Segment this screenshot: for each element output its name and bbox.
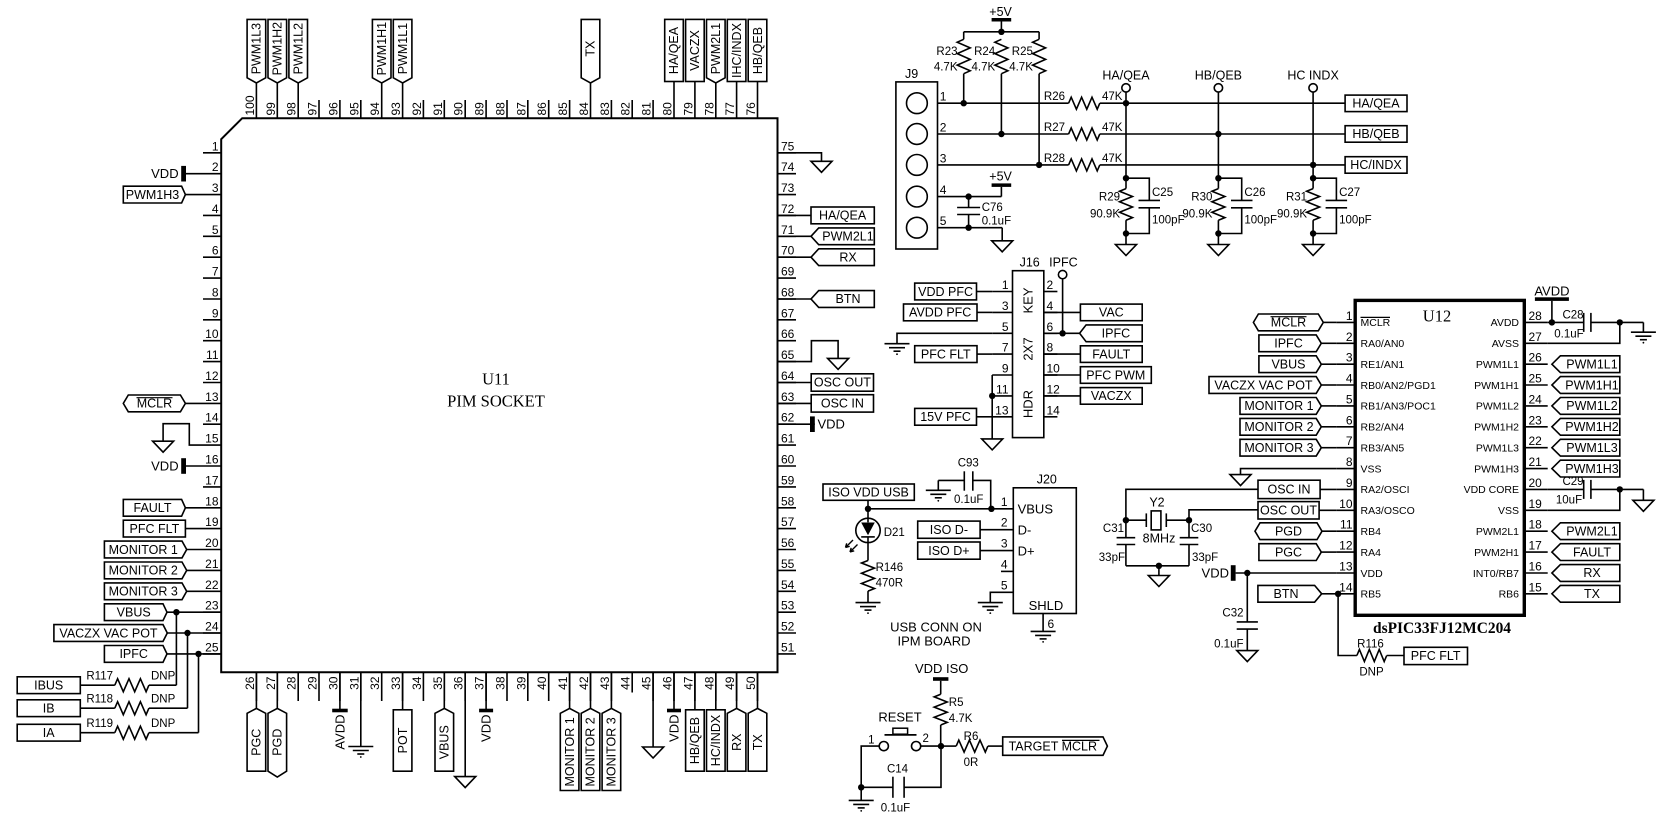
svg-text:HA/QEA: HA/QEA [819,209,867,223]
svg-text:20: 20 [205,536,219,550]
svg-text:8: 8 [1346,455,1353,469]
svg-text:5: 5 [1346,392,1353,406]
net flag PWM1L2 (U12-24) [1552,398,1620,415]
wire R23 to pin1 row [963,74,965,104]
svg-text:VDD: VDD [151,166,178,181]
svg-text:PWM1L3: PWM1L3 [1476,443,1519,455]
svg-text:29: 29 [306,676,320,690]
wire IA to resistor [80,732,115,734]
svg-text:2: 2 [1346,330,1353,344]
svg-text:90: 90 [452,102,466,116]
J20 pin 5 wire [990,578,1013,602]
J16 pin 8 stub [1044,341,1058,355]
capacitor C28 [1554,310,1591,341]
svg-text:RA3/OSCO: RA3/OSCO [1361,505,1415,517]
net flag VACZX VAC POT (U12-4) [1209,377,1336,394]
svg-text:0.1uF: 0.1uF [1554,329,1583,341]
net label OSC IN (U12-9) [1258,480,1336,498]
wire pin45 to ground [652,672,654,747]
U11 pin 27 [264,672,278,701]
wire pin37 to VDD [485,672,487,709]
U11 pin 70 [778,244,797,258]
wire pin50 to flag [757,672,759,708]
net flag MONITOR 1 (U11-20) [104,541,186,558]
U12 pin 22 (PWM1L3) [1476,434,1548,454]
svg-text:44: 44 [619,676,633,690]
svg-text:R26: R26 [1044,91,1065,103]
U12 pin 14 (RB5) [1336,580,1381,600]
svg-text:72: 72 [781,202,795,216]
wire to R30 [1217,178,1219,188]
U11 pin 81 [640,100,654,118]
ground (Y2) [1148,576,1169,587]
U11 pin 73 [778,181,797,195]
svg-text:DNP: DNP [1359,667,1384,679]
svg-text:12: 12 [205,369,219,383]
wire pin42 to flag [590,672,592,708]
wire J9-2 to R27 [938,133,1069,135]
wire pin98 to flag [297,83,299,100]
wire R31 to gnd node [1312,220,1314,233]
svg-text:97: 97 [306,102,320,116]
svg-text:MONITOR 3: MONITOR 3 [1244,441,1313,455]
svg-text:19: 19 [205,515,219,529]
U11 pin 16 [203,453,221,467]
net label FAULT (J16-8) [1080,346,1142,363]
junction Y2 left [1123,517,1129,523]
svg-text:+5V: +5V [989,5,1012,19]
svg-text:VACZX VAC POT: VACZX VAC POT [59,626,158,640]
J9 pin 1 number [940,90,947,104]
net label VAC [1080,304,1142,321]
wire J16-10 to PFC PWM [1044,374,1081,376]
svg-text:71: 71 [781,223,795,237]
U11 pin 78 [702,100,716,118]
svg-text:R5: R5 [949,697,964,709]
resistor R29 [1090,189,1133,221]
wire R31 gnd stem [1312,234,1314,245]
wire pin76 to label [757,82,759,101]
wire J16-9 down to ground [991,375,993,439]
svg-text:90.9K: 90.9K [1277,209,1307,221]
svg-text:RX: RX [1583,566,1601,580]
svg-text:16: 16 [205,453,219,467]
svg-text:PWM1L2: PWM1L2 [291,23,305,74]
wire IBUS to resistor [80,684,115,686]
svg-text:9: 9 [212,306,219,320]
net label 15V PFC [915,408,977,425]
svg-text:BTN: BTN [836,292,861,306]
capacitor C30 [1180,520,1219,566]
U11 pin 53 [778,599,797,613]
svg-text:FAULT: FAULT [1092,347,1130,361]
wire PFC FLT [977,353,992,355]
svg-text:10: 10 [205,327,219,341]
svg-text:AVSS: AVSS [1492,338,1519,350]
U11 pin 49 [723,672,737,701]
junction crystal gnd [1156,563,1162,569]
U11 pin 91 [431,100,445,118]
U11 pin 57 [778,515,797,529]
resistor R25 [1009,39,1045,73]
net flag PWM2L1 (U12-18) [1552,523,1620,540]
net flag PWM1H2 (U11-99) [268,19,287,83]
U11 pin 43 [598,672,612,701]
net flag PGD (U12-11) [1255,523,1336,540]
svg-text:10: 10 [1047,362,1061,376]
ground earth (J20-6) [1031,631,1056,642]
net label ISO D+ [918,542,980,559]
svg-text:61: 61 [781,432,795,446]
svg-text:R29: R29 [1099,192,1120,204]
U11 pin 50 [744,672,758,701]
svg-text:90.9K: 90.9K [1182,209,1212,221]
ground (pin 45) [643,747,664,758]
U12 pin 7 (RB3/AN5) [1336,434,1404,454]
svg-text:15V PFC: 15V PFC [920,410,971,424]
junction pin25 [195,651,201,657]
junction R24/pin2 [998,131,1004,137]
U12 pin 1 (MCLR) [1336,309,1390,329]
wire R30 to gnd node [1217,220,1219,233]
svg-text:41: 41 [556,676,570,690]
net flag RX (U12-16) [1552,565,1620,582]
svg-text:94: 94 [368,102,382,116]
wire pin62 to VDD [778,423,815,425]
J16 pin 10 stub [1044,362,1060,376]
U11 pin 44 [619,672,633,692]
wire pin30 to AVDD [339,672,341,709]
svg-text:TX: TX [751,734,765,751]
svg-text:R30: R30 [1191,192,1212,204]
net flag MONITOR 1 (U11-41) [560,708,579,790]
wire pin2 to VDD [186,173,203,175]
svg-text:R6: R6 [964,731,979,743]
J20 pin 3 stub [980,537,1013,551]
svg-text:VDD CORE: VDD CORE [1464,484,1519,496]
svg-text:96: 96 [326,102,340,116]
U11 pin 72 [778,202,797,216]
capacitor C31 [1099,520,1135,566]
connector J20 body [1013,472,1076,613]
svg-text:RB2/AN4: RB2/AN4 [1361,422,1405,434]
svg-text:IPFC: IPFC [1274,337,1302,351]
U12 pin 28 (AVDD) [1491,309,1548,329]
resistor R117 [86,671,149,692]
J9 pin 1 circle [907,93,928,114]
svg-text:73: 73 [781,181,795,195]
wire C14 left gnd stem [860,787,862,800]
junction R30 top [1215,175,1221,181]
U11 pin 2 [203,160,221,174]
wire pin84 to flag [590,83,592,100]
ground earth (J16-5) [885,344,910,355]
ground earth (C93) [926,490,951,501]
svg-text:+5V: +5V [989,170,1012,184]
net flag MONITOR 2 (U11-21) [104,562,186,579]
wire VDD to U12-13 [1236,572,1337,574]
svg-text:23: 23 [1529,413,1543,427]
U12 pin 18 (PWM2L1) [1476,518,1548,538]
U12 pin 11 (RB4) [1336,518,1381,538]
wire pin100 to flag [255,83,257,100]
svg-text:PFC FLT: PFC FLT [1411,649,1461,663]
junction C29/VSS [1617,486,1623,492]
svg-text:6: 6 [212,244,219,258]
resistor R30 [1182,189,1225,221]
svg-text:IPFC: IPFC [119,647,147,661]
svg-text:37: 37 [473,676,487,690]
svg-text:RB0/AN2/PGD1: RB0/AN2/PGD1 [1361,380,1436,392]
svg-text:54: 54 [781,578,795,592]
net label ISO VDD USB [823,484,914,500]
svg-text:69: 69 [781,265,795,279]
svg-text:AVDD: AVDD [1534,283,1569,298]
ground (J16-9) [982,439,1003,450]
U11 pin 28 [285,672,299,701]
U12 pin 26 (PWM1L1) [1476,351,1548,371]
svg-text:PWM1H2: PWM1H2 [1565,420,1619,434]
net label VACZX (U11-79) [686,19,705,81]
wire R30 gnd stem [1217,234,1219,245]
junction R31 top [1310,175,1316,181]
svg-text:VBUS: VBUS [438,725,452,759]
svg-text:R31: R31 [1286,192,1307,204]
U11 pin 88 [494,100,508,118]
U11 pin 12 [203,369,221,383]
wire pin13 to flag [185,402,203,404]
svg-text:100pF: 100pF [1152,215,1185,227]
svg-text:J9: J9 [905,67,918,81]
U12 pin 19 (VSS) [1498,497,1548,517]
svg-text:88: 88 [494,102,508,116]
U12 pin 23 (PWM1H2) [1474,413,1548,433]
svg-text:34: 34 [410,676,424,690]
U11 pin 63 [778,390,797,404]
svg-text:2: 2 [923,733,929,745]
U11 pin 10 [203,327,221,341]
wire R116 to PFC FLT [1387,655,1404,657]
U11 pin 1 [203,139,221,153]
power VDD (pin 16) [151,458,186,474]
ground earth (RESET) [849,800,874,811]
svg-text:79: 79 [681,102,695,116]
svg-text:VDD: VDD [1361,568,1384,580]
svg-text:HB/QEB: HB/QEB [1195,69,1242,83]
svg-text:VACZX VAC POT: VACZX VAC POT [1214,378,1313,392]
net flag MONITOR 3 (U12-7) [1240,439,1336,456]
U12 pin 15 (RB6) [1499,580,1548,600]
U11 pin 85 [556,100,570,118]
svg-text:74: 74 [781,160,795,174]
svg-text:3: 3 [1346,351,1353,365]
svg-text:23: 23 [205,599,219,613]
U11 pin 56 [778,536,797,550]
wire VSS to C29 node [1548,489,1620,510]
U11 pin 54 [778,578,797,592]
svg-text:MONITOR 1: MONITOR 1 [1244,399,1313,413]
ground (R29) [1116,245,1137,256]
svg-text:46: 46 [661,676,675,690]
svg-text:PGC: PGC [250,729,264,756]
net label OSC OUT (U11-64) [811,374,873,391]
svg-text:Y2: Y2 [1149,496,1164,510]
svg-text:D+: D+ [1018,543,1035,558]
svg-text:IB: IB [43,702,55,716]
J16 pin 2 stub [1044,278,1058,292]
svg-text:IHC/INDX: IHC/INDX [730,22,744,78]
svg-text:AVDD PFC: AVDD PFC [909,306,971,320]
J16 pin 13 stub [992,403,1012,417]
ground (pin 75) [811,161,832,172]
svg-text:PWM1H2: PWM1H2 [1474,422,1519,434]
svg-text:PWM1H1: PWM1H1 [375,22,389,76]
net label IBUS [17,677,80,694]
svg-text:6: 6 [1048,617,1055,631]
U12 pin 21 (PWM1H3) [1474,455,1548,475]
wire pin22 to flag [187,590,203,592]
junction R25/pin3 [1036,162,1042,168]
resistor R28 [1044,153,1123,171]
svg-text:PWM1H3: PWM1H3 [1474,463,1519,475]
U11 pin 65 [778,348,797,362]
svg-text:VDD: VDD [479,715,494,742]
U11 pin 24 [203,620,221,634]
svg-text:99: 99 [264,102,278,116]
junction pin24 [184,630,190,636]
svg-text:66: 66 [781,327,795,341]
wire J16-4 to VAC [1044,311,1081,313]
U11 pin 61 [778,432,797,446]
svg-text:C26: C26 [1244,187,1265,199]
svg-text:PWM1H3: PWM1H3 [1565,462,1619,476]
net label ISO D- [918,521,980,538]
U11 pin 68 [778,286,797,300]
net flag PWM1H2 (U12-23) [1552,418,1620,435]
svg-text:38: 38 [494,676,508,690]
wire pin47 to label [694,672,696,710]
svg-text:IBUS: IBUS [34,679,63,693]
wire crystal gnd stem [1158,566,1160,576]
net flag TX (U11-84) [581,19,600,83]
svg-text:25: 25 [205,640,219,654]
J9 pin 3 number [940,151,947,165]
net flag RX (U11-70) [811,249,874,266]
label DNP (R118) [151,694,176,706]
wire pin36 to ground [464,672,466,776]
junction VDD/C32 [1244,570,1250,576]
svg-text:0.1uF: 0.1uF [1214,639,1243,651]
svg-text:DNP: DNP [151,718,176,730]
svg-text:78: 78 [702,102,716,116]
capacitor C27 [1313,178,1372,233]
svg-text:5: 5 [1002,320,1009,334]
U11 pin 18 [203,494,221,508]
net label OSC IN (U11-63) [811,395,873,412]
U11 pin 14 [203,411,221,425]
U11 pin 59 [778,473,797,487]
svg-text:90.9K: 90.9K [1090,209,1120,221]
power VDD (pin 37) [479,709,494,742]
svg-text:VDD: VDD [151,458,178,473]
wire U12-28 to C28 [1548,321,1584,323]
svg-text:R23: R23 [936,46,957,58]
svg-text:24: 24 [205,620,219,634]
U12 pin 20 (VDD CORE) [1464,476,1548,496]
svg-text:VBUS: VBUS [1018,502,1054,517]
J9 pin 4 circle [907,186,928,207]
power VDD (pin 2) [151,166,186,182]
net flag TX (U11-50) [748,708,767,771]
svg-text:47K: 47K [1102,153,1123,165]
svg-text:18: 18 [205,494,219,508]
wire U12-20 to C29 [1548,488,1584,490]
wire pin19 to label [185,528,203,530]
net flag VACZX VAC POT [54,625,167,642]
wire pin3 to flag [185,194,203,196]
svg-text:9: 9 [1002,362,1009,376]
U11 pin 79 [681,100,695,118]
svg-text:HB/QEB: HB/QEB [751,27,765,74]
U12 pin 2 (RA0/AN0) [1336,330,1404,350]
junction J16-11 [989,393,995,399]
wire pin79 to label [694,82,696,101]
wire pin33 to label [402,672,404,710]
svg-text:93: 93 [389,102,403,116]
svg-text:87: 87 [514,102,528,116]
svg-text:PWM1H3: PWM1H3 [126,188,180,202]
svg-text:0.1uF: 0.1uF [881,803,910,815]
U11 pin 75 [778,139,797,153]
svg-text:VDD: VDD [1202,565,1229,580]
resistor R118 [86,694,149,715]
svg-text:2: 2 [940,121,947,135]
wire pin20 to flag [187,549,203,551]
ground earth (J20-5) [978,603,1003,614]
net label HC/INDX (U11-48) [707,710,726,771]
svg-text:10uF: 10uF [1556,495,1582,507]
svg-text:15: 15 [205,432,219,446]
svg-text:84: 84 [577,102,591,116]
svg-text:IPFC: IPFC [1049,256,1077,270]
svg-text:27: 27 [1529,330,1543,344]
svg-text:3: 3 [212,181,219,195]
junction IPFC/J16-6 [1059,330,1065,336]
junction HA node [1123,100,1129,106]
net label PFC FLT (U11-19) [123,520,185,537]
svg-text:55: 55 [781,557,795,571]
wire pin21 to flag [187,569,203,571]
IC U11 PIM SOCKET body [221,118,777,672]
svg-text:R24: R24 [974,46,996,58]
svg-text:PWM1L3: PWM1L3 [1566,441,1617,455]
svg-text:85: 85 [556,102,570,116]
net flag MONITOR 3 (U11-22) [104,583,186,600]
net flag PWM1L1 (U12-26) [1552,356,1620,373]
power VDD (pin 46) [666,709,681,742]
svg-text:IPFC: IPFC [1102,327,1130,341]
resistor R31 [1277,189,1320,221]
svg-text:48: 48 [702,676,716,690]
wire pin75 to ground [778,153,822,162]
svg-text:USB CONN ON: USB CONN ON [890,620,982,635]
wire J16-8 to FAULT [1044,353,1081,355]
svg-text:ISO D-: ISO D- [930,523,968,537]
wire pin99 to flag [276,83,278,100]
svg-text:DNP: DNP [151,694,176,706]
wire pin63 to label [778,402,812,404]
svg-text:R118: R118 [86,694,113,706]
